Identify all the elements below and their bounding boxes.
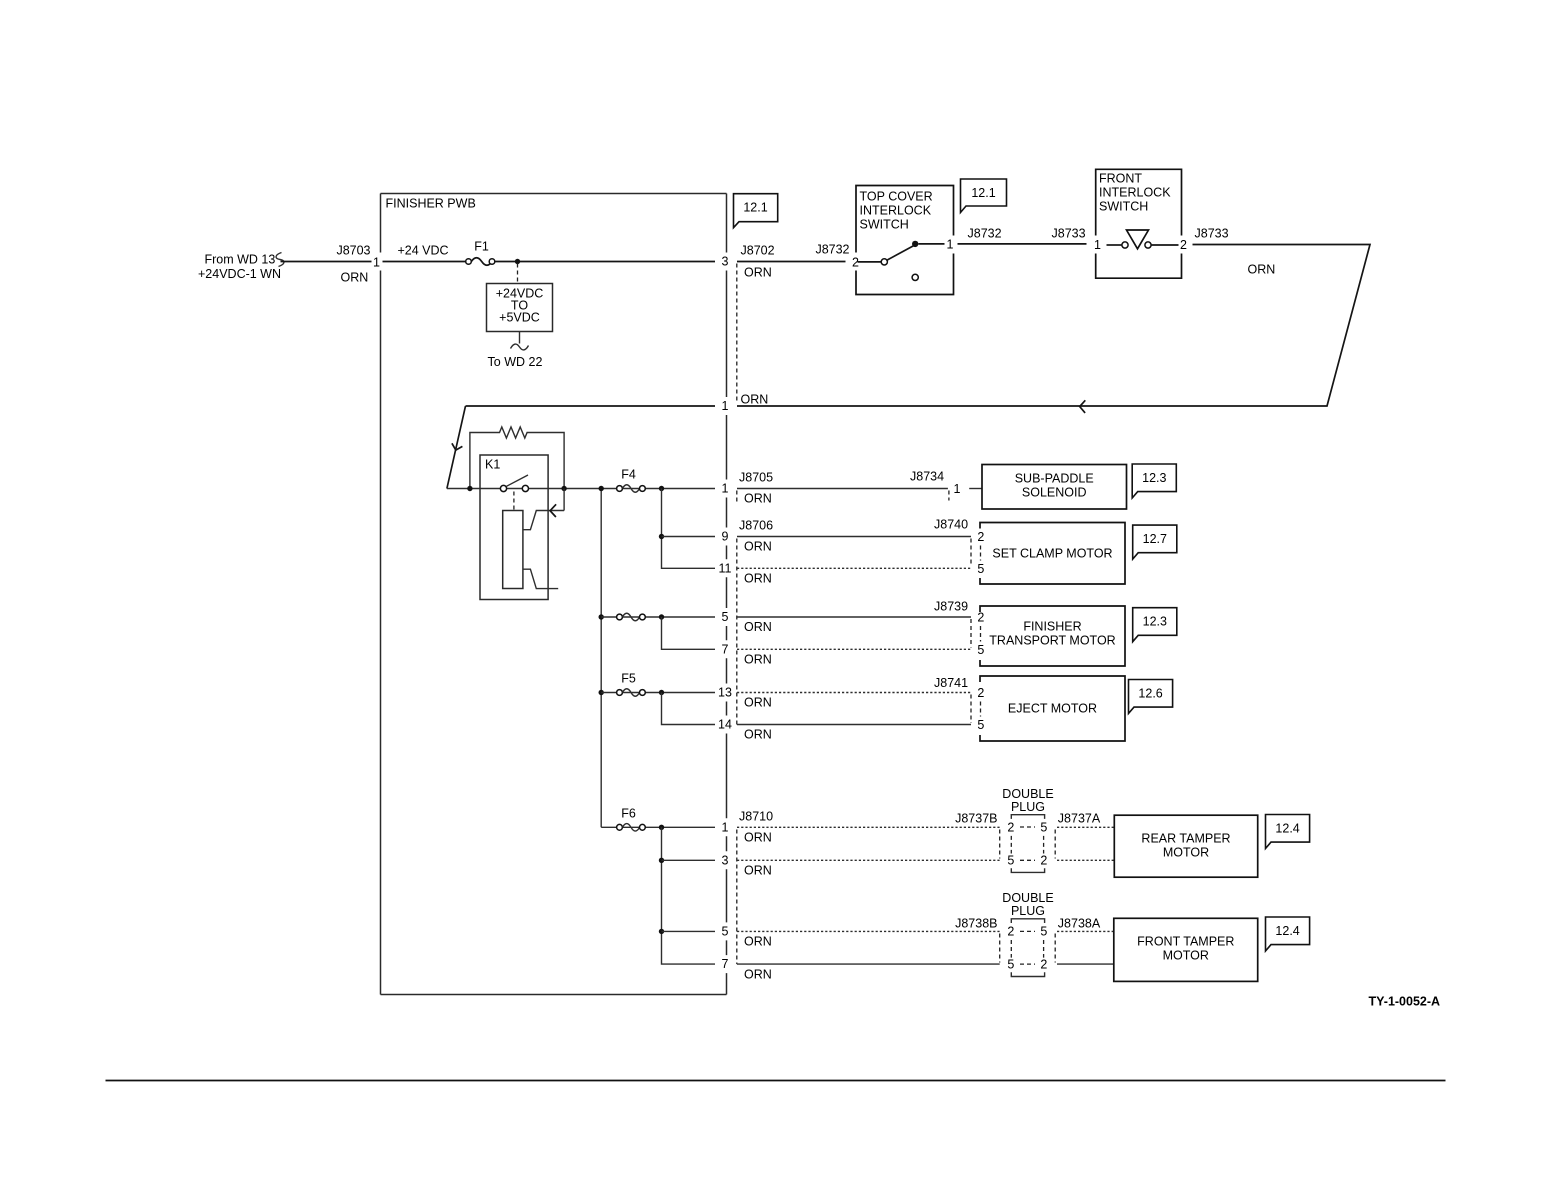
svg-text:J8738A: J8738A (1058, 917, 1101, 931)
svg-text:5: 5 (1040, 925, 1047, 939)
callout 12.4 for front tamper motor (1266, 917, 1310, 951)
motor FINISHER TRANSPORT MOTOR (980, 606, 1125, 666)
svg-text:J8740: J8740 (934, 518, 968, 532)
connector J8738A label (1055, 917, 1101, 963)
svg-text:ORN: ORN (744, 728, 772, 742)
wire +24 VDC from pin 1 to fuse F1 (383, 244, 466, 262)
svg-text:2: 2 (1040, 958, 1047, 972)
connector J8706 ORN labels rows 5 and 7 (744, 620, 772, 667)
callout 12.1 for J8702 (734, 194, 778, 228)
pin 9 at PWB edge (722, 530, 729, 544)
junction node bus at second fuse row (599, 614, 604, 619)
svg-text:13: 13 (718, 686, 732, 700)
connector J8710 label (737, 810, 773, 965)
connector J8710 ORN labels rows 5 and 7 (744, 935, 772, 982)
wire tap to pin 5 (662, 930, 716, 932)
svg-text:5: 5 (1007, 854, 1014, 868)
svg-text:TY-1-0052-A: TY-1-0052-A (1369, 995, 1441, 1009)
svg-text:MOTOR: MOTOR (1163, 846, 1209, 860)
wire pin 14 to J8741 pin 5 (737, 724, 971, 726)
footer rule (106, 1080, 1446, 1082)
svg-text:5: 5 (977, 562, 984, 576)
wire J8737A pin 5 to rear tamper motor (1057, 826, 1114, 828)
svg-text:ORN: ORN (744, 864, 772, 878)
dashed tap to +24VDC/+5VDC converter (517, 264, 519, 284)
pin 1 return into PWB (722, 399, 729, 413)
wire front interlock switch return path (737, 245, 1370, 407)
wire stub To WD 22 with break squiggle (488, 332, 543, 370)
callout 12.4 for rear tamper motor (1266, 815, 1310, 849)
svg-text:J8737A: J8737A (1058, 812, 1101, 826)
wire F5 row (601, 692, 715, 694)
svg-text:SUB-PADDLE: SUB-PADDLE (1015, 472, 1094, 486)
svg-text:J8733: J8733 (1195, 227, 1229, 241)
pin 5 J8738 at PWB edge (722, 924, 729, 938)
front interlock switch FRONT INTERLOCK SWITCH (1096, 169, 1187, 278)
wire tap to pin 9 (662, 536, 716, 538)
connector J8738B label (955, 917, 1000, 963)
fuse F1 (466, 240, 495, 266)
svg-text:5: 5 (977, 718, 984, 732)
svg-text:SWITCH: SWITCH (860, 218, 909, 232)
pin 3 at PWB edge (722, 853, 729, 867)
callout 12.1 for top cover interlock switch (961, 179, 1007, 213)
drawing number TY-1-0052-A (1369, 995, 1441, 1009)
pin 7 at PWB edge (722, 642, 729, 656)
wire J8710 pin 3 to J8737B pin 5 (737, 859, 1000, 861)
svg-text:2: 2 (1040, 854, 1047, 868)
svg-text:J8710: J8710 (739, 810, 773, 824)
resistor in K1 bypass loop (470, 427, 564, 489)
+24VDC TO +5VDC converter box (487, 284, 553, 332)
wire J8702 pin 3 to top cover interlock switch (737, 261, 846, 263)
svg-text:J8733: J8733 (1052, 227, 1086, 241)
wire branch vertical to pin 7 (662, 617, 716, 649)
callout 12.6 for eject motor (1129, 680, 1173, 714)
arrow on return wire pointing left (1080, 400, 1086, 413)
svg-text:12.3: 12.3 (1143, 615, 1167, 629)
svg-text:12.7: 12.7 (1143, 532, 1167, 546)
svg-text:5: 5 (1007, 958, 1014, 972)
pin 5 at PWB edge (722, 610, 729, 624)
wire from WD13 to J8703 pin 1 (281, 261, 372, 263)
svg-text:2: 2 (977, 530, 984, 544)
svg-text:TOP COVER: TOP COVER (860, 190, 933, 204)
junction node bus at F5 row (599, 690, 604, 695)
svg-text:+5VDC: +5VDC (499, 311, 540, 325)
wire tap to pin 3 (662, 859, 716, 861)
svg-text:J8732: J8732 (968, 227, 1002, 241)
wire J8738A pin 2 to front tamper motor (1057, 963, 1114, 965)
svg-text:ORN: ORN (744, 540, 772, 554)
svg-text:To WD 22: To WD 22 (488, 355, 543, 369)
svg-text:MOTOR: MOTOR (1163, 949, 1209, 963)
wire break squiggle at left input (276, 253, 284, 267)
svg-text:12.4: 12.4 (1275, 822, 1299, 836)
svg-text:PLUG: PLUG (1011, 904, 1045, 918)
svg-text:12.1: 12.1 (971, 186, 995, 200)
svg-text:DOUBLE: DOUBLE (1002, 787, 1053, 801)
svg-text:7: 7 (722, 957, 729, 971)
relay K1 (480, 455, 564, 600)
svg-text:1: 1 (947, 238, 954, 252)
junction node resistor right leg (561, 486, 566, 491)
svg-text:TRANSPORT MOTOR: TRANSPORT MOTOR (989, 634, 1115, 648)
svg-text:REAR TAMPER: REAR TAMPER (1141, 832, 1230, 846)
svg-text:ORN: ORN (744, 620, 772, 634)
svg-text:F6: F6 (621, 807, 636, 821)
svg-text:12.6: 12.6 (1138, 687, 1162, 701)
junction node branch at pin 13 row (659, 690, 664, 695)
svg-text:EJECT MOTOR: EJECT MOTOR (1008, 702, 1097, 716)
FINISHER PWB board outline (381, 194, 727, 995)
svg-text:J8734: J8734 (910, 470, 944, 484)
svg-text:12.3: 12.3 (1142, 471, 1166, 485)
pin 11 at PWB edge (719, 561, 732, 575)
wire branch vertical below F6 (662, 827, 716, 964)
svg-text:1: 1 (1094, 238, 1101, 252)
callout 12.7 for set clamp motor (1133, 525, 1177, 559)
pin 13 at PWB edge (718, 686, 732, 700)
svg-text:SOLENOID: SOLENOID (1022, 486, 1087, 500)
junction node branch at pin 9 row (659, 534, 664, 539)
wire J8737A pin 2 to rear tamper motor (1057, 859, 1114, 861)
wire top cover switch to front interlock switch (958, 243, 1087, 245)
svg-text:DOUBLE: DOUBLE (1002, 891, 1053, 905)
svg-text:J8732: J8732 (815, 243, 849, 257)
junction node branch at pin 3 row (659, 858, 664, 863)
svg-text:5: 5 (977, 643, 984, 657)
connector J8703 label (336, 244, 370, 285)
svg-text:J8705: J8705 (739, 471, 773, 485)
fuse F6 (617, 807, 646, 832)
connector J8740 label and pins (934, 518, 984, 576)
pin 14 at PWB edge (718, 718, 732, 732)
junction node branch at pin 5 row J8738 (659, 929, 664, 934)
svg-text:1: 1 (954, 482, 961, 496)
junction node resistor left leg (467, 486, 472, 491)
svg-text:From WD 13: From WD 13 (205, 253, 276, 267)
svg-text:12.1: 12.1 (743, 201, 767, 215)
pin 1 J8710 at PWB edge (722, 820, 729, 834)
svg-text:5: 5 (722, 610, 729, 624)
svg-text:ORN: ORN (744, 266, 772, 280)
wire branch vertical to pin 14 (662, 693, 716, 725)
svg-text:ORN: ORN (744, 492, 772, 506)
svg-text:2: 2 (1007, 821, 1014, 835)
svg-text:3: 3 (722, 853, 729, 867)
top cover interlock switch TOP COVER INTERLOCK SWITCH (856, 186, 954, 295)
fuse F5 (617, 672, 646, 697)
svg-text:J8738B: J8738B (955, 917, 997, 931)
svg-text:SET CLAMP MOTOR: SET CLAMP MOTOR (992, 547, 1112, 561)
svg-text:3: 3 (722, 255, 729, 269)
svg-text:ORN: ORN (744, 572, 772, 586)
connector J8706 ORN labels rows 13 and 14 (744, 696, 772, 742)
svg-text:12.4: 12.4 (1275, 924, 1299, 938)
callout 12.3 for sub-paddle solenoid (1132, 464, 1176, 498)
svg-text:FRONT: FRONT (1099, 172, 1142, 186)
svg-text:FRONT TAMPER: FRONT TAMPER (1137, 935, 1234, 949)
svg-text:2: 2 (1180, 238, 1187, 252)
svg-text:2: 2 (977, 611, 984, 625)
connector J8733 label right (1195, 227, 1276, 277)
wire J8734 to sub-paddle solenoid (969, 488, 982, 490)
svg-text:+24 VDC: +24 VDC (398, 244, 449, 258)
svg-text:J8702: J8702 (741, 244, 775, 258)
connector J8741 label and pins (934, 676, 984, 732)
arrow on diagonal wire into K1 (452, 443, 463, 450)
svg-text:F1: F1 (474, 240, 489, 254)
wire second fuse row (601, 616, 715, 618)
pin 1 at FINISHER PWB left edge (373, 256, 380, 270)
junction node branch at pin 5 row (659, 614, 664, 619)
junction node branch at pin 1 row J8710 (659, 825, 664, 830)
connector J8739 label and pins (934, 600, 984, 657)
svg-text:ORN: ORN (744, 935, 772, 949)
svg-text:J8741: J8741 (934, 676, 968, 690)
svg-text:PLUG: PLUG (1011, 800, 1045, 814)
svg-text:F4: F4 (621, 468, 636, 482)
connector J8734 label and pin 1 (910, 470, 960, 501)
node From WD 13 +24VDC-1 WN source label (198, 253, 281, 282)
junction node branch at F4 row (659, 486, 664, 491)
svg-text:K1: K1 (485, 458, 500, 472)
wire J8705 pin 1 to J8734 (737, 488, 948, 490)
junction node bus at F4 row (599, 486, 604, 491)
wire pin 7 to J8738B pin 5 (737, 963, 1000, 965)
svg-text:1: 1 (722, 820, 729, 834)
wire pin 5 to J8738B pin 2 (737, 930, 1000, 932)
wire J8710 pin 1 to J8737B pin 2 (737, 826, 1000, 828)
svg-text:ORN: ORN (744, 696, 772, 710)
wire pin 7 to J8739 pin 5 (737, 648, 971, 650)
connector J8732 label right (968, 227, 1002, 241)
arrow on K1 coil feedback pointing left (550, 504, 556, 517)
wire from F1 to J8702 pin 3 (495, 261, 715, 263)
connector J8737B label (955, 812, 1000, 859)
callout 12.3 for finisher transport motor (1133, 608, 1177, 642)
connector J8702 labels and dashed line (737, 244, 775, 407)
wire J8706 pin 11 to J8740 pin 5 (737, 567, 971, 569)
svg-text:FINISHER PWB: FINISHER PWB (386, 197, 476, 211)
pin 7 J8738 at PWB edge (722, 957, 729, 971)
svg-text:11: 11 (719, 561, 732, 575)
wire F6 row (601, 826, 715, 828)
svg-text:14: 14 (718, 718, 732, 732)
wire K1 contact row (447, 488, 715, 490)
svg-text:FINISHER: FINISHER (1023, 620, 1081, 634)
svg-text:9: 9 (722, 530, 729, 544)
fuse unlabeled between F4 and F5 (617, 613, 646, 621)
wire J8738A pin 5 to front tamper motor (1057, 930, 1114, 932)
wire +24 distribution bus vertical (600, 489, 602, 828)
connector J8706 label (737, 519, 773, 725)
connector J8732 label left (815, 243, 859, 270)
motor SET CLAMP MOTOR (980, 523, 1125, 585)
double plug rear tamper (1002, 787, 1053, 872)
svg-text:2: 2 (1007, 925, 1014, 939)
svg-text:ORN: ORN (741, 393, 769, 407)
svg-text:1: 1 (722, 482, 729, 496)
svg-text:7: 7 (722, 642, 729, 656)
wire branch vertical below F4 (662, 489, 716, 569)
svg-text:J8739: J8739 (934, 600, 968, 614)
motor EJECT MOTOR (980, 676, 1125, 741)
svg-text:ORN: ORN (744, 653, 772, 667)
pin 1 J8705 at PWB edge (722, 482, 729, 496)
svg-text:ORN: ORN (744, 968, 772, 982)
svg-text:5: 5 (1040, 821, 1047, 835)
svg-text:J8703: J8703 (336, 244, 370, 258)
motor FRONT TAMPER MOTOR (1114, 918, 1258, 981)
svg-text:J8737B: J8737B (955, 812, 997, 826)
pin 3 at PWB right edge (722, 255, 729, 269)
svg-text:F5: F5 (621, 672, 636, 686)
junction node on +24 VDC rail (515, 259, 520, 264)
connector J8705 label (737, 471, 773, 506)
svg-text:ORN: ORN (341, 271, 369, 285)
svg-text:1: 1 (373, 256, 380, 270)
fuse F4 (617, 468, 646, 493)
svg-text:2: 2 (977, 686, 984, 700)
double plug front tamper (1002, 891, 1053, 977)
svg-text:5: 5 (722, 924, 729, 938)
svg-text:ORN: ORN (1248, 263, 1276, 277)
connector J8733 label left (1052, 227, 1102, 253)
motor REAR TAMPER MOTOR (1114, 815, 1257, 877)
svg-text:SWITCH: SWITCH (1099, 200, 1148, 214)
svg-text:1: 1 (722, 399, 729, 413)
wire pin 13 to J8741 pin 2 (737, 692, 971, 694)
wire pin 5 to J8739 pin 2 (737, 616, 971, 618)
solenoid SUB-PADDLE SOLENOID (982, 465, 1127, 510)
svg-text:ORN: ORN (744, 831, 772, 845)
wire J8706 pin 9 to J8740 pin 2 (737, 536, 971, 538)
connector J8737A label (1055, 812, 1101, 859)
svg-text:INTERLOCK: INTERLOCK (1099, 186, 1171, 200)
svg-text:J8706: J8706 (739, 519, 773, 533)
wire return inside PWB to K1 (447, 406, 715, 489)
svg-text:INTERLOCK: INTERLOCK (860, 204, 932, 218)
svg-text:+24VDC-1 WN: +24VDC-1 WN (198, 267, 281, 281)
